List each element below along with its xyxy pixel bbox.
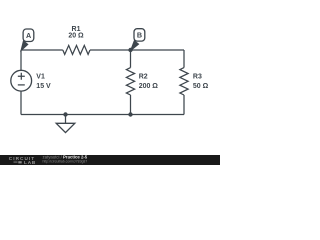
svg-text:B: B	[137, 31, 142, 40]
bottom rail wire	[21, 114, 184, 116]
wire node B down to R2	[130, 50, 132, 68]
wire node A down to V1	[20, 50, 22, 70]
svg-text:20 Ω: 20 Ω	[68, 33, 84, 40]
voltage source V1	[11, 70, 32, 91]
footer CircuitLab logo	[9, 156, 36, 165]
wire from R1 to node B and on to R3 corner	[90, 49, 184, 51]
junction R2 bottom rail	[128, 112, 132, 116]
svg-text:V1: V1	[36, 74, 45, 81]
wire R2 down to bottom rail	[130, 95, 132, 115]
resistor R3	[180, 68, 188, 95]
svg-text:LAB: LAB	[24, 160, 36, 165]
resistor R1	[63, 45, 90, 54]
node B	[131, 29, 145, 51]
svg-text:R2: R2	[139, 73, 148, 80]
junction at node B	[128, 48, 132, 52]
ground	[56, 115, 75, 133]
wire top corner down to R3	[183, 50, 185, 68]
wire R3 down to bottom rail	[183, 95, 185, 115]
svg-text:200 Ω: 200 Ω	[139, 83, 159, 90]
wire V1 down to bottom rail	[20, 91, 22, 114]
svg-text:R3: R3	[193, 73, 202, 80]
footer bar	[0, 155, 220, 165]
wire top-left from node A to R1	[21, 49, 63, 51]
svg-text:15 V: 15 V	[36, 83, 51, 90]
node A	[21, 29, 34, 51]
svg-text:50 Ω: 50 Ω	[193, 83, 209, 90]
resistor R2	[126, 68, 134, 95]
svg-text:A: A	[26, 31, 31, 40]
junction at ground	[63, 112, 67, 116]
svg-text:http://circuitlab.com/c/783g87: http://circuitlab.com/c/783g87	[43, 159, 88, 163]
